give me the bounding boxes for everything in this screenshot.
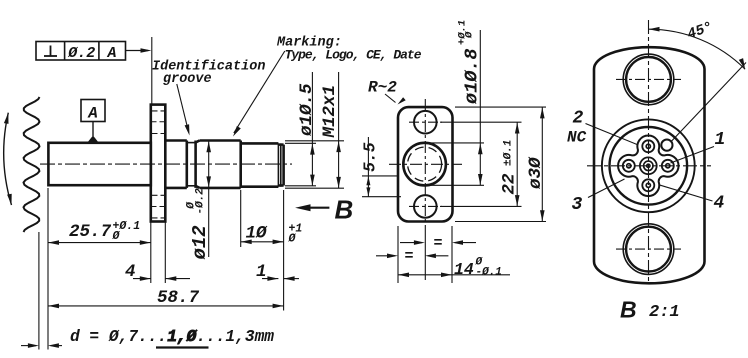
dimension 5.5 bbox=[361, 137, 380, 197]
svg-text:ø3Ø: ø3Ø bbox=[526, 156, 546, 189]
svg-text:25.7: 25.7 bbox=[69, 222, 112, 242]
top mounting circle bbox=[623, 54, 674, 105]
identification groove notch bbox=[187, 141, 196, 188]
dimension ø10.8 +0.1/0 bbox=[457, 20, 483, 186]
leader identification groove bbox=[177, 84, 190, 136]
dimension 58.7 bbox=[48, 288, 284, 308]
symmetry dim upper (center to right, =) bbox=[400, 235, 476, 252]
center hole ø10.8 bbox=[403, 143, 446, 186]
leader R~2 bbox=[385, 94, 406, 105]
svg-text:4: 4 bbox=[714, 194, 725, 214]
svg-text:A: A bbox=[87, 105, 98, 123]
extension lines M12x1 bbox=[285, 141, 344, 188]
label NC bbox=[567, 128, 587, 146]
svg-text:-Ø.1: -Ø.1 bbox=[476, 267, 502, 279]
label 3 bbox=[572, 195, 583, 215]
svg-text:Ø: Ø bbox=[288, 233, 297, 246]
svg-text:NC: NC bbox=[567, 128, 587, 146]
svg-text:ø1Ø.5: ø1Ø.5 bbox=[297, 83, 317, 136]
wire (flexible cable squiggle) bbox=[24, 97, 40, 350]
svg-text:3: 3 bbox=[572, 195, 583, 215]
dimension ø30 bbox=[526, 107, 546, 221]
datum A symbol bbox=[81, 100, 105, 144]
svg-text:B: B bbox=[620, 297, 637, 323]
FCF leader arrow bbox=[126, 48, 152, 53]
leader pin 2 bbox=[586, 124, 638, 145]
svg-text:±Ø.1: ±Ø.1 bbox=[503, 140, 515, 166]
svg-text:1: 1 bbox=[715, 130, 726, 150]
dimension 1 (thread end chamfer) bbox=[256, 262, 299, 282]
symmetry dim lower (left to center, =) bbox=[376, 248, 448, 265]
shaft centerline bbox=[40, 163, 292, 165]
connector horizontal centerline bbox=[587, 165, 711, 167]
svg-text:A: A bbox=[106, 45, 116, 62]
leader pin 1 bbox=[671, 147, 715, 164]
view direction B arrow bbox=[295, 195, 353, 225]
label 2 bbox=[573, 109, 584, 129]
svg-text:ø12: ø12 bbox=[189, 225, 211, 259]
connector insert outline bbox=[618, 136, 679, 197]
pin 4 (bottom) bbox=[642, 179, 654, 191]
dimension 10 +1/0 (thread length) bbox=[241, 223, 303, 246]
extension line flange left (bottom) bbox=[397, 226, 399, 283]
note Marking: Type, Logo, CE, Date bbox=[276, 36, 422, 63]
svg-text:ø1Ø.8: ø1Ø.8 bbox=[462, 48, 483, 104]
mounting hole bottom (ø5.5) bbox=[414, 195, 437, 218]
label 45° bbox=[685, 20, 715, 44]
extension lines ø10.5 bbox=[285, 143, 316, 186]
svg-text:Ø.2: Ø.2 bbox=[67, 45, 95, 62]
flange horizontal centerline bbox=[389, 163, 462, 165]
svg-text:B: B bbox=[335, 195, 354, 225]
svg-text:14: 14 bbox=[454, 260, 474, 279]
pin 1 (right) bbox=[662, 160, 674, 172]
svg-text:Ø: Ø bbox=[112, 230, 121, 243]
45 degree arc bbox=[649, 27, 746, 69]
dimension 14 0/-0.1 bbox=[398, 257, 510, 280]
dimension 4 (flange width) bbox=[125, 262, 190, 282]
top hole centerline bbox=[616, 78, 681, 80]
leader marking bbox=[233, 51, 285, 137]
extension line thread start bottom bbox=[240, 190, 242, 247]
bottom hole centerline bbox=[616, 248, 681, 250]
extension lines ø30 bbox=[455, 107, 546, 221]
center hole thread circle bbox=[408, 147, 442, 181]
extension line flange left bottom bbox=[150, 222, 152, 283]
connector outer ring bbox=[602, 119, 695, 212]
flange outline (front view) bbox=[398, 107, 453, 221]
pin 2 (top) bbox=[642, 140, 654, 152]
pin 3 (left) bbox=[623, 160, 635, 172]
svg-text:=: = bbox=[405, 248, 414, 265]
extension lines 25.7/58.7 left bbox=[47, 188, 49, 350]
flange (side view) bbox=[151, 105, 166, 222]
view label B 2:1 bbox=[620, 297, 680, 323]
extension lines 5.5 bbox=[362, 176, 401, 197]
extension line flange right bottom bbox=[164, 222, 166, 283]
extension line flange right (bottom) bbox=[451, 226, 453, 283]
extension line flange left face bbox=[151, 37, 153, 104]
svg-text:M12x1: M12x1 bbox=[320, 85, 340, 139]
shaft body (left view) bbox=[48, 143, 150, 185]
extension line thread end bottom bbox=[283, 190, 285, 311]
dimension M12x1 bbox=[320, 72, 341, 188]
svg-text:58.7: 58.7 bbox=[157, 288, 200, 308]
dimension ø12 0/-0.2 bbox=[186, 141, 212, 259]
top hole centerline bbox=[409, 121, 442, 123]
marking cylinder section bbox=[196, 141, 241, 188]
feature control frame ⊥ 0.2 A bbox=[36, 42, 126, 63]
svg-text:R~2: R~2 bbox=[368, 79, 397, 97]
svg-text:4: 4 bbox=[125, 262, 136, 282]
svg-text:2:1: 2:1 bbox=[649, 303, 680, 322]
svg-text:Ø: Ø bbox=[464, 31, 476, 39]
svg-text:1Ø: 1Ø bbox=[246, 224, 269, 244]
bottom mounting circle bbox=[623, 224, 674, 275]
svg-text:22: 22 bbox=[500, 173, 520, 195]
rotation direction arc arrow bbox=[4, 113, 12, 205]
extension lines ø10.8 bbox=[430, 143, 484, 185]
leader pin 4 bbox=[659, 185, 713, 201]
note Identification groove bbox=[152, 60, 265, 88]
bottom hole centerline bbox=[409, 205, 442, 207]
leader pin 3 bbox=[588, 179, 625, 198]
flange vertical centerline bbox=[424, 99, 426, 280]
dimension 25.7 +0.1/0 bbox=[48, 220, 151, 245]
note d = 0,7...1,0...1,3mm bbox=[70, 328, 274, 348]
svg-text:5.5: 5.5 bbox=[361, 142, 380, 172]
connector body outline bbox=[594, 47, 705, 283]
center pin bbox=[640, 157, 657, 174]
coding notch key circle bbox=[661, 140, 672, 151]
svg-text:1,Ø: 1,Ø bbox=[167, 328, 197, 346]
connector inner ring bbox=[610, 127, 688, 205]
label 4 bbox=[714, 194, 725, 214]
connector vertical centerline bbox=[648, 20, 650, 284]
svg-text:=: = bbox=[434, 235, 443, 252]
label 1 bbox=[715, 130, 726, 150]
shaft ø12 section bbox=[165, 141, 187, 188]
note R~2 bbox=[368, 79, 397, 97]
cable dim arrows bbox=[21, 343, 62, 348]
svg-text:1: 1 bbox=[256, 262, 267, 282]
threaded section M12x1 bbox=[241, 143, 284, 186]
45 degree key line bbox=[671, 63, 746, 142]
svg-text:-Ø.2: -Ø.2 bbox=[195, 188, 207, 215]
mounting hole top (ø5.5) bbox=[414, 111, 437, 134]
extension lines 22 bbox=[440, 122, 522, 206]
svg-text:groove: groove bbox=[163, 72, 212, 87]
dimension 22 ±0.1 bbox=[500, 122, 520, 206]
dimension ø10.5 bbox=[297, 72, 317, 186]
svg-text:2: 2 bbox=[573, 109, 584, 129]
svg-text:Type, Logo, CE, Date: Type, Logo, CE, Date bbox=[285, 48, 422, 63]
